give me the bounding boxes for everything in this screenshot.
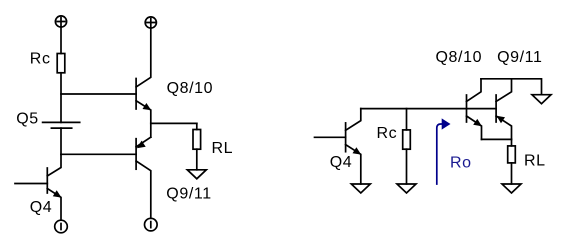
svg-text:Q8/10: Q8/10 xyxy=(436,49,483,66)
base wire xyxy=(15,183,47,185)
transistor Q9/11 (left, PNP) xyxy=(136,137,151,218)
svg-text:RL: RL xyxy=(212,140,234,157)
collector xyxy=(467,79,482,102)
power supply V+ (circle with plus) above Q8/10 xyxy=(145,17,156,28)
emitter arrow xyxy=(143,103,152,110)
collector (top arm) xyxy=(496,79,511,102)
battery Q5 short plate xyxy=(51,127,71,129)
collector xyxy=(47,154,61,176)
wire lower node to Q9/11 base xyxy=(61,153,136,155)
transistor Q4 (left, NPN) xyxy=(15,154,62,220)
svg-text:Q8/10: Q8/10 xyxy=(167,80,214,97)
wire Rc bottom to ground xyxy=(406,149,408,184)
output wire to RL xyxy=(151,122,197,124)
transistor Q9/11 (right, PNP) xyxy=(496,79,511,140)
battery Q5 long plate xyxy=(43,121,80,123)
collector xyxy=(136,28,151,87)
svg-text:Q4: Q4 xyxy=(30,199,53,216)
wire RL bottom to ground xyxy=(196,149,198,170)
transistor Q8/10 (right, NPN) xyxy=(467,79,482,140)
emitter (top arm, arrow toward bar) xyxy=(136,137,151,147)
svg-text:Q4: Q4 xyxy=(330,154,353,171)
emitter xyxy=(346,145,361,184)
collector xyxy=(136,161,151,218)
wire V+ to Rc xyxy=(60,27,62,54)
svg-text:RL: RL xyxy=(524,152,546,169)
wire Rc bottom to battery top, junction at y=94 xyxy=(60,73,62,123)
base bar xyxy=(135,79,137,110)
base bar xyxy=(135,139,137,170)
svg-text:Rc: Rc xyxy=(30,51,51,68)
wire RL bottom to ground xyxy=(511,163,513,184)
resistor Rc (right) xyxy=(403,130,411,149)
emitter (bottom arm, arrow toward bar) xyxy=(496,116,511,139)
wire node to Q8/10 base xyxy=(61,93,136,95)
wire battery bottom to lower node xyxy=(60,128,62,154)
ground (right Rc) xyxy=(397,184,416,193)
wire main node to Rc top xyxy=(406,109,408,130)
resistor Rc (left) xyxy=(57,54,65,73)
power supply V+ (circle with plus) top-left xyxy=(55,16,66,27)
ground (left RL) xyxy=(187,170,206,179)
base wire xyxy=(315,136,346,138)
current source I2 (bottom circle under Q9/11) xyxy=(145,218,158,231)
resistor RL (right) xyxy=(508,146,516,163)
svg-text:Q9/11: Q9/11 xyxy=(166,185,211,202)
emitter arrow xyxy=(53,190,62,197)
wire collector rail to ground xyxy=(481,79,542,95)
base bar xyxy=(466,95,468,122)
svg-text:Ro: Ro xyxy=(450,155,472,172)
main wire (Q4 collector to bases) xyxy=(361,108,496,110)
svg-text:Q5: Q5 xyxy=(16,111,39,128)
emitter xyxy=(47,189,61,221)
transistor Q8/10 (left, NPN) xyxy=(136,28,151,137)
wire output node to RL top xyxy=(196,123,198,129)
emitter xyxy=(136,101,151,138)
svg-text:Q9/11: Q9/11 xyxy=(497,49,542,66)
Ro measurement arrow (blue) xyxy=(437,124,443,184)
current source I1 (bottom-left circle) xyxy=(55,220,68,233)
collector xyxy=(346,109,361,131)
ground (right Q4) xyxy=(351,184,370,193)
wire emitter node to RL top xyxy=(511,139,513,146)
transistor Q4 (right, NPN) xyxy=(315,109,362,184)
emitter xyxy=(467,116,482,139)
base bar xyxy=(46,168,48,193)
base bar xyxy=(345,123,347,152)
ground (right RL) xyxy=(502,184,521,193)
resistor RL (left) xyxy=(193,130,201,150)
emitter join wire xyxy=(482,138,512,140)
svg-text:Rc: Rc xyxy=(377,125,398,142)
base bar xyxy=(495,95,497,122)
ground (top right) xyxy=(532,95,551,104)
